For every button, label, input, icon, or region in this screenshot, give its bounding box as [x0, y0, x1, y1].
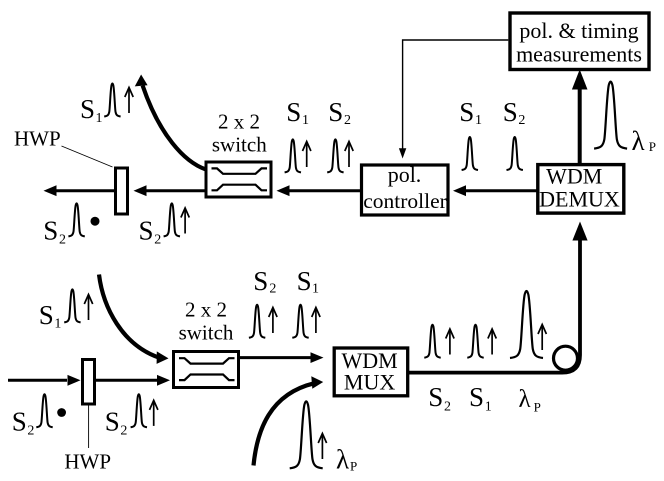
svg-text:2: 2 [27, 424, 34, 439]
svg-text:pol.: pol. [388, 162, 422, 187]
pointer line HWP upper [62, 146, 113, 167]
svg-text:pol. & timing: pol. & timing [519, 18, 638, 43]
label S2 upper (arrow group) [139, 216, 162, 248]
label S2 lower (arrow group) [105, 407, 128, 439]
curved arrow: S1 input into lower switch [99, 275, 169, 364]
svg-text:measurements: measurements [516, 42, 642, 67]
svg-text:1: 1 [54, 317, 61, 332]
svg-text:S: S [286, 97, 301, 127]
pol arrow lambda-P MUX line [538, 325, 546, 351]
wire: WDM DEMUX to pol. controller arrow (upper chain) [453, 185, 538, 196]
svg-text:1: 1 [485, 400, 492, 415]
dot polarization marker lower [57, 408, 66, 417]
wire: switch to HWP arrow (upper chain) [134, 185, 207, 196]
label S1 above lower switch output [297, 266, 319, 297]
label: 2 x 2 switch lower [179, 298, 234, 345]
svg-text:S: S [139, 216, 154, 246]
svg-text:1: 1 [96, 111, 103, 126]
svg-text:HWP: HWP [14, 126, 61, 150]
pulse S2 right-top [507, 137, 523, 170]
label lambda P near DEMUX [632, 126, 657, 156]
label S1 mid-top [286, 97, 309, 128]
svg-text:switch: switch [212, 133, 267, 157]
label S2 lower (dot group) [12, 407, 35, 439]
svg-text:2: 2 [518, 113, 525, 128]
box: pol. & timing measurements U1 [510, 13, 649, 70]
svg-text:λ: λ [632, 126, 645, 156]
svg-text:2: 2 [444, 400, 451, 415]
pulse S1 lower switch output [292, 305, 308, 338]
wire: pol. controller to switch arrow (upper chain) [277, 185, 362, 196]
svg-text:2: 2 [344, 113, 351, 128]
svg-text:2: 2 [120, 424, 127, 439]
feedback wire from measurements box to pol. controller [403, 40, 509, 150]
pulse S2 on MUX output line [424, 325, 440, 358]
pulse S2 lower dot group [36, 394, 52, 427]
pulse S1 right-top [462, 137, 478, 170]
svg-text:2 x 2: 2 x 2 [185, 298, 227, 322]
svg-text:S: S [469, 382, 484, 412]
svg-text:P: P [534, 399, 541, 414]
box: WDM MUX U4 [334, 348, 408, 396]
svg-text:λ: λ [519, 386, 531, 413]
svg-text:2: 2 [59, 233, 66, 248]
label S2 above lower switch output [253, 266, 276, 297]
pol arrow S2 lower switch output [269, 308, 277, 334]
svg-text:S: S [428, 382, 443, 412]
box: WDM DEMUX U3 [538, 164, 624, 214]
pulse S1 on MUX output line [467, 325, 483, 358]
svg-text:S: S [39, 300, 54, 330]
pulse S2 upper dot group [68, 203, 84, 236]
label S2 MUX line [428, 382, 451, 415]
svg-text:S: S [253, 266, 268, 296]
pulse lambda-P on MUX output line [510, 291, 543, 358]
svg-text:S: S [328, 97, 343, 127]
curved arrow: upper switch up-left output [135, 75, 206, 170]
svg-text:P: P [350, 459, 357, 474]
label S1 upper-left [80, 94, 103, 126]
pulse S1 mid-top [285, 139, 301, 172]
svg-text:2: 2 [269, 282, 276, 297]
label S1 right-top [459, 97, 482, 128]
pol arrow S1 upper-left [125, 88, 133, 114]
wire: fiber from WDM MUX to WDM DEMUX with corner [408, 240, 580, 373]
component: HWP lower waveplate [83, 360, 95, 405]
svg-text:S: S [12, 407, 27, 437]
pulse S2 mid-top [327, 139, 343, 172]
label: 2 x 2 switch upper [212, 110, 267, 157]
pulse S1 upper-left [104, 84, 120, 117]
component: HWP upper waveplate [116, 168, 128, 214]
label S1 lower-left [39, 300, 62, 332]
pol arrow S2 MUX line [446, 329, 454, 355]
dot polarization marker upper [91, 217, 100, 226]
svg-text:HWP: HWP [64, 449, 111, 473]
pol arrow lambda-P bottom [318, 434, 326, 460]
svg-text:S: S [503, 97, 518, 127]
wire: input arrow into HWP lower [8, 375, 81, 386]
svg-text:λ: λ [336, 445, 349, 475]
svg-text:WDM: WDM [546, 164, 602, 189]
pol arrow S2 lower [150, 400, 158, 426]
svg-text:DEMUX: DEMUX [539, 187, 620, 212]
wire: output arrow far left (upper chain) [44, 185, 115, 196]
svg-text:S: S [80, 94, 95, 124]
pol arrow S2 mid-top [345, 142, 353, 168]
box: 2x2 switch lower U6 [174, 352, 239, 388]
box: pol. controller U2 [362, 162, 449, 215]
pulse S2 lower arrow group [131, 394, 147, 427]
pol arrow S1 mid-top [303, 142, 311, 168]
pol arrow S1 lower-left [84, 295, 92, 321]
wire: WDM DEMUX up to measurements arrow [572, 70, 588, 165]
pulse S1 lower-left [64, 289, 80, 322]
svg-text:switch: switch [179, 321, 234, 345]
feedback arrowhead [399, 148, 406, 158]
svg-text:controller: controller [363, 189, 447, 213]
pulse S2 lower switch output [249, 305, 265, 338]
svg-text:S: S [105, 407, 120, 437]
wire: switch lower to WDM MUX arrow [240, 352, 324, 363]
label S2 upper (dot group) [43, 216, 66, 248]
pol arrow S1 lower switch output [312, 308, 320, 334]
wire: HWP lower to switch arrow [96, 375, 171, 386]
svg-text:1: 1 [312, 282, 319, 297]
pol arrow S1 MUX line [488, 329, 496, 355]
svg-text:2 x 2: 2 x 2 [218, 110, 260, 134]
box: 2x2 switch upper U5 [206, 162, 271, 197]
svg-text:S: S [459, 97, 474, 127]
label lambda P bottom [336, 445, 357, 475]
label S2 right-top [503, 97, 526, 128]
svg-text:1: 1 [302, 113, 309, 128]
label S1 MUX line [469, 382, 492, 415]
svg-text:S: S [43, 216, 58, 246]
svg-text:2: 2 [154, 233, 161, 248]
fiber loop circle [554, 346, 578, 370]
pulse lambda-P bottom pump [290, 401, 323, 468]
pointer line HWP lower [88, 406, 90, 449]
label lambda P MUX line [519, 386, 541, 415]
pol arrow S2 upper [181, 208, 189, 234]
pulse lambda-P near DEMUX [594, 82, 627, 149]
pulse S2 upper arrow group [164, 203, 180, 236]
curved arrow: pump input into WDM MUX [254, 376, 324, 465]
label S2 mid-top [328, 97, 351, 128]
svg-text:MUX: MUX [344, 370, 395, 395]
svg-text:P: P [649, 139, 656, 154]
arrowhead into DEMUX bottom [572, 222, 587, 241]
svg-text:1: 1 [475, 113, 482, 128]
svg-text:S: S [297, 266, 312, 296]
